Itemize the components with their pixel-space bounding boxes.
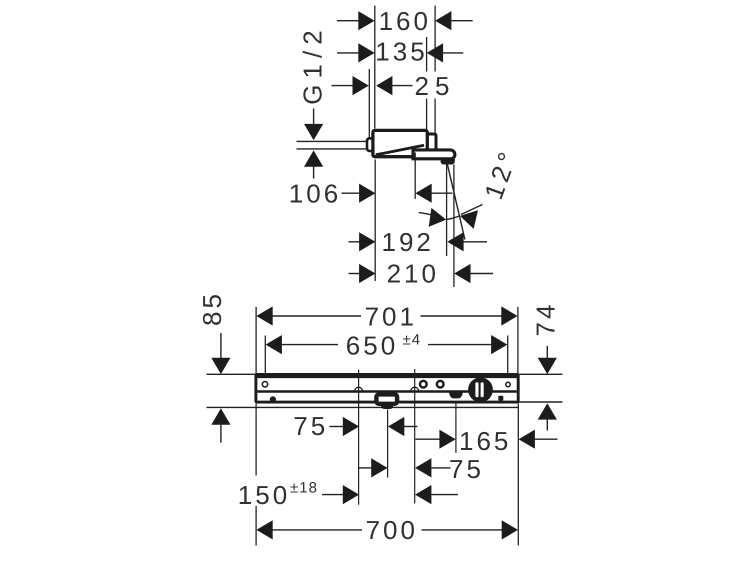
dimension 210 <box>349 258 494 288</box>
dimension 192 <box>349 227 488 257</box>
G1/2 pipe <box>297 141 369 149</box>
dimension 701 <box>256 301 517 331</box>
svg-text:150: 150 <box>238 480 290 510</box>
extension line left main top <box>374 6 376 129</box>
svg-text:85: 85 <box>197 291 227 326</box>
extension line 650 left <box>264 336 266 374</box>
extension line arm center <box>414 153 416 200</box>
aerator <box>441 158 455 165</box>
svg-text:75: 75 <box>293 411 328 441</box>
extension line 701 left <box>255 307 257 374</box>
thermostat knob <box>468 377 493 402</box>
dimension 75 first <box>293 411 417 441</box>
spout connector <box>425 134 437 151</box>
svg-text:210: 210 <box>387 258 439 288</box>
extension line 700 left <box>255 404 257 546</box>
svg-text:G1/2: G1/2 <box>298 24 328 104</box>
label G1/2 <box>298 24 328 104</box>
dimension 74 <box>531 302 561 431</box>
svg-text:160: 160 <box>379 6 431 36</box>
svg-text:701: 701 <box>365 301 417 331</box>
spout body <box>373 130 427 156</box>
extension line 650 right <box>507 336 509 374</box>
dimension 150 +-18 <box>238 479 458 510</box>
dimension 700 <box>256 515 518 545</box>
dimension 12 degrees <box>419 145 524 229</box>
dimension 25 <box>332 71 456 101</box>
dimension G1/2 vertical <box>304 109 323 179</box>
dimension 85 <box>197 291 231 443</box>
diverter centerline <box>455 403 457 453</box>
svg-text:±18: ±18 <box>290 479 318 496</box>
svg-text:106: 106 <box>289 179 341 209</box>
left foot dot <box>270 396 276 402</box>
wall reference line <box>207 373 563 375</box>
svg-text:135: 135 <box>375 36 427 66</box>
svg-text:75: 75 <box>449 454 484 484</box>
outlet centerline right <box>414 369 416 504</box>
svg-text:±4: ±4 <box>403 332 422 349</box>
svg-text:192: 192 <box>382 227 434 257</box>
wall protrusion <box>367 138 377 151</box>
volume ring left <box>420 381 427 388</box>
dimension 650 +-4 <box>266 330 508 360</box>
extension line left 25 <box>368 69 370 138</box>
volume ring right <box>437 381 444 388</box>
holder centerline <box>387 410 389 478</box>
spray direction line 12deg <box>447 164 465 240</box>
svg-text:650: 650 <box>346 330 398 360</box>
shelf bottom reference line <box>207 406 519 408</box>
dimension 135 <box>337 36 463 66</box>
extension line spout tip <box>453 165 455 288</box>
left inlet screw <box>262 382 267 387</box>
extension line right 160 <box>434 6 436 135</box>
outlet marker right <box>411 387 419 391</box>
waterfall diagonal <box>376 145 424 155</box>
shower bar body <box>256 375 518 403</box>
svg-text:25: 25 <box>415 71 456 101</box>
dimension 75 second <box>359 454 484 484</box>
extension line aerator <box>446 164 448 257</box>
shower holder <box>376 394 397 409</box>
svg-text:165: 165 <box>459 426 511 456</box>
spout arm <box>413 150 455 159</box>
outlet centerline left <box>358 370 360 505</box>
extension line right 135 <box>426 37 428 130</box>
svg-text:74: 74 <box>531 302 561 337</box>
bar bottom right reference line <box>518 401 563 403</box>
extension line left main bottom <box>374 160 376 282</box>
extension line 700 right <box>517 403 519 545</box>
knob detail square <box>498 396 503 401</box>
extension line 701 right <box>517 307 519 374</box>
diverter bowl <box>449 391 463 398</box>
dimension 106 <box>289 179 453 209</box>
right inlet screw <box>506 382 510 386</box>
dimension 165 <box>416 426 558 456</box>
svg-text:700: 700 <box>366 515 418 545</box>
dimension 160 <box>337 6 473 36</box>
outlet marker left <box>355 387 363 391</box>
